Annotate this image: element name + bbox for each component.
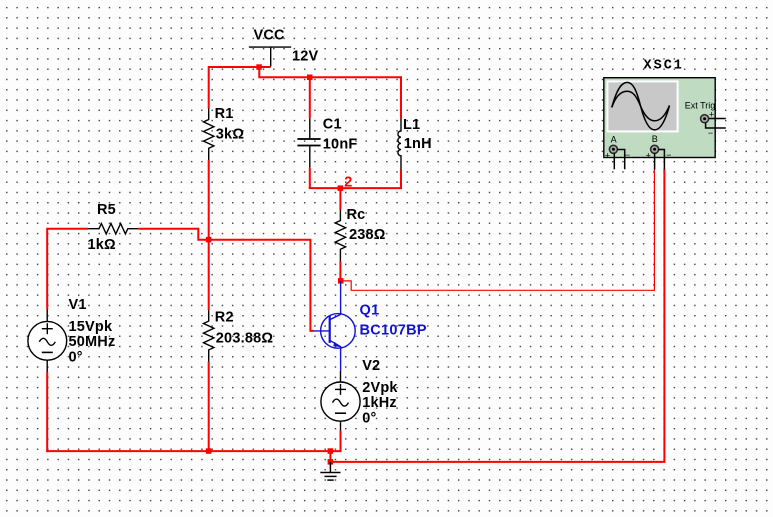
wire C1 top stub — [309, 77, 311, 118]
svg-text:R5: R5 — [97, 202, 116, 218]
svg-text:−: − — [666, 150, 671, 160]
wire A plus stub — [613, 153, 615, 169]
resistor R2 — [204, 310, 214, 361]
svg-text:V2: V2 — [362, 358, 380, 374]
wire C1 bottom stub — [309, 168, 311, 188]
oscilloscope XSC1 — [604, 78, 715, 158]
source V1 — [28, 310, 67, 373]
svg-text:0°: 0° — [69, 350, 83, 366]
wire Rc top stub — [339, 188, 341, 209]
node 2 junction dot — [338, 185, 344, 191]
node R2 bottom junction dot — [206, 448, 212, 454]
wire ext trig plus stub — [709, 118, 726, 120]
svg-text:R2: R2 — [215, 309, 234, 325]
svg-text:3kΩ: 3kΩ — [216, 127, 245, 143]
svg-text:−: − — [625, 150, 630, 160]
svg-text:0°: 0° — [362, 411, 376, 427]
wire R5 right with jog to bias junction — [138, 229, 209, 240]
svg-text:2: 2 — [344, 174, 352, 190]
wire VCC rail to R1 top — [209, 67, 271, 109]
svg-text:203.88Ω: 203.88Ω — [216, 330, 274, 346]
wire ground bus to scope B minus — [330, 169, 664, 462]
svg-text:C1: C1 — [323, 116, 342, 132]
wire B plus lead — [654, 153, 656, 169]
svg-text:1kΩ: 1kΩ — [88, 237, 117, 253]
wire V1 bottom — [46, 372, 48, 452]
wire base net — [209, 240, 314, 331]
node ground bus junction dot — [328, 459, 334, 465]
node V2 ground junction dot — [328, 448, 334, 454]
svg-text:+: + — [646, 150, 651, 160]
svg-text:15Vpk: 15Vpk — [69, 319, 113, 335]
wire L1 bottom stub — [400, 170, 402, 189]
wire V1 top to R5 — [47, 229, 88, 310]
wire L1 top stub — [400, 77, 402, 118]
svg-text:R1: R1 — [215, 106, 234, 122]
svg-text:L1: L1 — [403, 117, 420, 133]
wire bias divider vertical R1 bottom to R2 top — [208, 160, 210, 310]
wire bottom ground rail — [46, 450, 331, 452]
terminal Ext Trig — [701, 109, 715, 138]
svg-text:BC107BP: BC107BP — [360, 323, 427, 339]
wire tank bottom rail node 2 — [309, 187, 402, 189]
node VCC junction dot — [256, 64, 262, 70]
inductor L1 — [398, 119, 401, 170]
wire A minus stub — [617, 150, 625, 170]
svg-text:VCC: VCC — [254, 28, 286, 44]
source V2 — [321, 371, 360, 431]
svg-text:XSC1: XSC1 — [644, 59, 684, 74]
svg-text:1nH: 1nH — [404, 136, 432, 152]
svg-text:Q1: Q1 — [360, 303, 380, 319]
resistor R1 — [204, 109, 214, 161]
svg-text:+: + — [605, 150, 610, 160]
wire collector to scope B plus — [341, 169, 655, 290]
svg-text:238Ω: 238Ω — [349, 227, 386, 243]
wire VCC node down to tank top rail — [259, 67, 402, 77]
terminal A — [605, 135, 630, 161]
power VCC symbol — [249, 47, 291, 66]
svg-text:−: − — [708, 128, 713, 138]
svg-text:B: B — [652, 134, 658, 144]
svg-text:V1: V1 — [69, 297, 87, 313]
resistor Rc — [335, 210, 345, 262]
ground — [320, 462, 340, 480]
svg-text:Rc: Rc — [347, 207, 366, 223]
capacitor C1 — [297, 118, 320, 168]
svg-text:A: A — [611, 135, 617, 145]
svg-text:10nF: 10nF — [323, 136, 358, 152]
transistor Q1 — [314, 281, 356, 371]
wire R2 bottom — [208, 362, 210, 453]
node base junction dot — [206, 237, 212, 243]
terminal B — [646, 134, 672, 161]
wire B minus lead — [658, 150, 664, 170]
svg-text:1kHz: 1kHz — [362, 395, 397, 411]
node tank top junction dot — [307, 75, 313, 81]
scope waveform — [612, 82, 670, 129]
svg-text:12V: 12V — [292, 48, 319, 64]
node collector junction dot — [338, 278, 344, 284]
svg-text:2Vpk: 2Vpk — [362, 380, 398, 396]
wire ground node link — [329, 451, 331, 462]
wire Rc bottom to collector junction — [339, 262, 341, 281]
wire V2 bottom — [330, 431, 340, 452]
svg-text:50MHz: 50MHz — [69, 334, 116, 350]
resistor R5 — [88, 224, 138, 234]
wire ext trig minus stub — [706, 123, 726, 129]
